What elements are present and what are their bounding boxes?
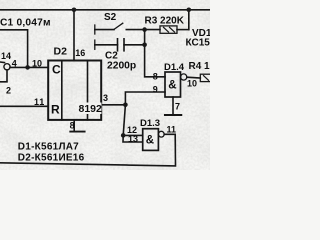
wire: D1.4 pin10 output to R4 [187, 76, 201, 79]
svg-text:D2-К561ИЕ16: D2-К561ИЕ16 [18, 152, 85, 163]
node: junction pin3 wire [123, 103, 128, 108]
node: junction C2/vertical [142, 43, 147, 48]
svg-text:8: 8 [70, 120, 75, 130]
node: junction of C1 and pin4 wire [25, 65, 30, 70]
resistor R3 leads [177, 29, 189, 31]
svg-text:КС156: КС156 [186, 38, 211, 49]
wire: D2 pin3 output [101, 104, 125, 106]
wire: feedback down-left to pin 2 [0, 70, 7, 82]
scan blotches [0, 0, 210, 170]
wire: up to D1.4 pin9 [125, 92, 165, 105]
switch S2 lever [114, 23, 123, 29]
capacitor C2 left terminal tick [94, 40, 96, 49]
wire: D1.2 output stub at left edge [0, 61, 5, 64]
wire: C2 left lead [95, 44, 118, 46]
IC D2 box [48, 61, 101, 120]
svg-text:16: 16 [75, 48, 85, 58]
svg-text:C: C [52, 63, 61, 77]
node: junction S2/R3 wire [142, 27, 147, 32]
svg-text:&: & [168, 79, 176, 91]
gate D1.3 box [143, 129, 159, 151]
svg-text:D1.3: D1.3 [140, 118, 160, 129]
svg-text:9: 9 [153, 84, 158, 94]
svg-text:14: 14 [1, 51, 11, 61]
gate D1.4 box [165, 72, 181, 97]
svg-text:R3 220K: R3 220K [145, 16, 185, 27]
capacitor C2 plates [117, 39, 119, 51]
wire: D1.3 pin11 output loop to left edge [0, 134, 176, 166]
wire: down to D1.3 pin13 [123, 135, 143, 142]
node: junction at pin12 [121, 133, 126, 138]
IC D2 left field divider [61, 61, 63, 120]
svg-text:13: 13 [128, 134, 138, 144]
svg-text:4: 4 [12, 58, 17, 68]
svg-text:3: 3 [103, 93, 108, 103]
svg-text:7: 7 [175, 102, 180, 112]
wire: vertical S2/C2 down to D1.4 pin8 [145, 30, 165, 77]
wire: D2 pin16 drop from rail [73, 10, 75, 61]
svg-text:8192: 8192 [79, 103, 103, 115]
scan grain [0, 0, 210, 170]
svg-text:10: 10 [32, 59, 42, 69]
wire: D2 pin8 to ground [73, 120, 75, 132]
wire: S2 left lead [95, 29, 114, 31]
wire: down to D1.3 pin12 [123, 105, 143, 136]
label 8192 output [78, 103, 102, 115]
paper background [0, 0, 210, 170]
svg-text:D1-К561ЛА7: D1-К561ЛА7 [18, 142, 79, 153]
wire: S2 right lead to R3 [126, 29, 160, 31]
switch S2 left terminal tick [94, 25, 96, 34]
svg-text:&: & [146, 135, 154, 147]
node: D1.2 output connector circle [4, 64, 10, 70]
svg-text:D1.4: D1.4 [164, 62, 185, 73]
svg-text:11: 11 [34, 97, 45, 107]
svg-text:R: R [51, 103, 60, 117]
svg-text:2: 2 [6, 86, 11, 96]
resistor R4 body clipped at edge [200, 74, 212, 81]
svg-text:10: 10 [187, 78, 197, 88]
svg-text:11: 11 [167, 124, 177, 134]
wire: R3 up to rail [188, 10, 190, 30]
wire: pin4 to D2 pin10 C input [10, 66, 48, 68]
svg-text:D2: D2 [54, 46, 68, 58]
wire: +supply top rail [0, 9, 210, 11]
gate D1.3 output bubble [158, 131, 164, 137]
ground bar of D2 pin8 [70, 131, 84, 133]
gate D1.4 output bubble [181, 74, 187, 80]
wire: D2 pin11 R input from left edge [0, 105, 48, 107]
svg-text:S2: S2 [104, 12, 117, 23]
svg-text:C1 0,047м: C1 0,047м [0, 18, 51, 29]
node: junction on rail at R3 [187, 8, 192, 13]
IC D2 second divider [87, 61, 89, 120]
wire: C1 top lead [0, 30, 28, 68]
resistor R3 body [160, 26, 177, 33]
node: junction on rail at pin16 [72, 8, 77, 13]
svg-text:2200p: 2200p [107, 60, 136, 71]
svg-text:R4 1М: R4 1М [189, 61, 211, 72]
svg-text:8: 8 [153, 71, 158, 81]
wire: D1.4 pin7 to ground [172, 97, 174, 115]
ground bar of D1.4 pin7 [165, 114, 181, 116]
wire: C2 right lead [124, 44, 145, 46]
